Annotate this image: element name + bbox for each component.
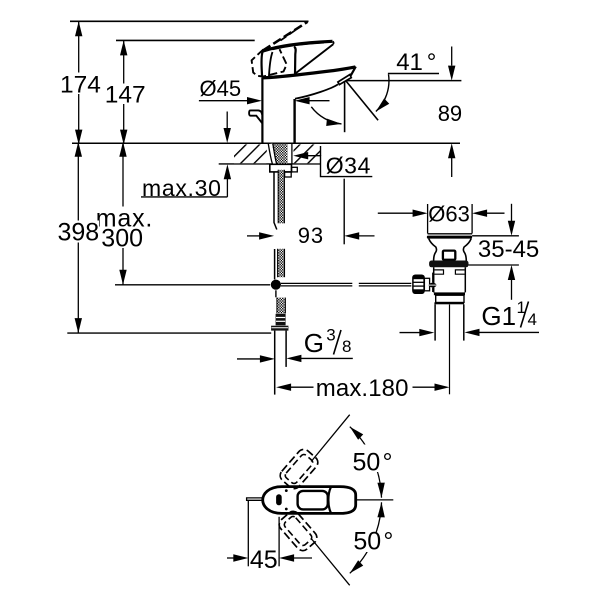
dimension 147 xyxy=(104,40,146,144)
label Ø45 with leader arrows xyxy=(199,76,330,104)
drain seat flange xyxy=(429,261,468,268)
drain body bottom xyxy=(434,292,465,295)
top view body outline xyxy=(263,487,356,514)
reference line: max spout height xyxy=(70,20,309,22)
knurled adjuster nut xyxy=(413,275,424,293)
dimension max.180 xyxy=(276,375,449,402)
pop-up rod upper xyxy=(274,172,277,230)
svg-text:4: 4 xyxy=(528,310,537,329)
svg-text:°: ° xyxy=(383,448,393,476)
dimension max.30 xyxy=(141,112,231,201)
threaded shank through countertop xyxy=(268,144,292,164)
label G1 1/4 xyxy=(400,298,540,336)
hose below junction xyxy=(275,290,277,297)
svg-text:3: 3 xyxy=(326,326,335,345)
lever swung position lower (dashed) xyxy=(277,509,320,554)
dimension Ø63 xyxy=(378,201,505,233)
supply tailpiece xyxy=(275,331,286,395)
svg-text:50: 50 xyxy=(353,528,381,556)
drain center line xyxy=(449,305,451,395)
svg-text:G: G xyxy=(304,328,324,358)
dimension 174 xyxy=(58,21,101,144)
drain tailpipe xyxy=(434,304,436,340)
svg-text:8: 8 xyxy=(342,337,351,356)
rod ball joint xyxy=(432,273,434,283)
svg-text:45: 45 xyxy=(250,546,278,574)
drain flange xyxy=(428,233,473,235)
svg-text:Ø45: Ø45 xyxy=(200,76,242,101)
svg-text:G1: G1 xyxy=(481,301,516,331)
svg-text:max.180: max.180 xyxy=(316,375,409,402)
aerator slot xyxy=(276,494,282,505)
svg-text:°: ° xyxy=(427,49,437,76)
50 degree annotation xyxy=(311,415,393,586)
pop-up rod knob xyxy=(249,110,262,123)
svg-text:35-45: 35-45 xyxy=(478,236,539,263)
countertop hatching right xyxy=(294,144,321,163)
svg-text:89: 89 xyxy=(438,101,462,126)
pop-up rod to drain (horizontal) xyxy=(281,283,411,286)
svg-text:398: 398 xyxy=(58,219,100,247)
svg-text:°: ° xyxy=(383,528,393,556)
dimension 45 xyxy=(227,501,312,574)
reference line: 398 bottom xyxy=(67,332,271,334)
faucet spout xyxy=(262,67,355,99)
supply stub top view xyxy=(247,498,262,500)
svg-text:Ø34: Ø34 xyxy=(326,153,371,179)
label G3/8 xyxy=(237,326,353,363)
G3/8 nut xyxy=(271,326,288,331)
fixing dots xyxy=(285,489,288,492)
flexible hose upper segment xyxy=(278,170,291,224)
41 degree annotation xyxy=(311,49,461,132)
lever swung position upper (dashed) xyxy=(278,447,321,492)
faucet body front view xyxy=(262,78,294,144)
dimension 398 xyxy=(57,142,100,333)
reference line: handle height xyxy=(116,39,255,41)
dimension 93 xyxy=(247,179,375,248)
label Ø34 with leader xyxy=(293,146,372,179)
countertop underside line xyxy=(219,163,321,165)
drain waste assembly xyxy=(413,234,472,394)
countertop hatching left xyxy=(234,144,267,163)
countertop surface line xyxy=(72,142,460,144)
flexible hose lower segment xyxy=(278,249,285,277)
mounting nut under countertop xyxy=(270,164,298,172)
svg-text:50: 50 xyxy=(353,448,381,476)
top view lever hole xyxy=(298,491,328,510)
pop-up rod lower xyxy=(274,249,276,280)
svg-text:max.30: max.30 xyxy=(142,175,222,201)
dimension 89 xyxy=(438,47,462,178)
svg-text:147: 147 xyxy=(105,82,146,109)
faucet lever raised (dashed) xyxy=(252,22,308,77)
pop-up rod junction node xyxy=(271,280,281,290)
svg-text:300: 300 xyxy=(101,224,143,252)
drain body xyxy=(433,267,435,292)
reference line: hose length bottom xyxy=(115,284,270,286)
hose connector xyxy=(276,314,286,326)
svg-text:174: 174 xyxy=(60,72,101,99)
drain valve knob xyxy=(443,251,455,260)
dimension 35-45 xyxy=(469,204,540,300)
svg-text:41: 41 xyxy=(396,49,423,76)
faucet lever (solid) xyxy=(262,41,334,77)
dimension max.300 xyxy=(95,142,155,285)
svg-text:93: 93 xyxy=(298,223,324,248)
rod collet xyxy=(424,278,429,291)
svg-text:Ø63: Ø63 xyxy=(428,201,470,226)
